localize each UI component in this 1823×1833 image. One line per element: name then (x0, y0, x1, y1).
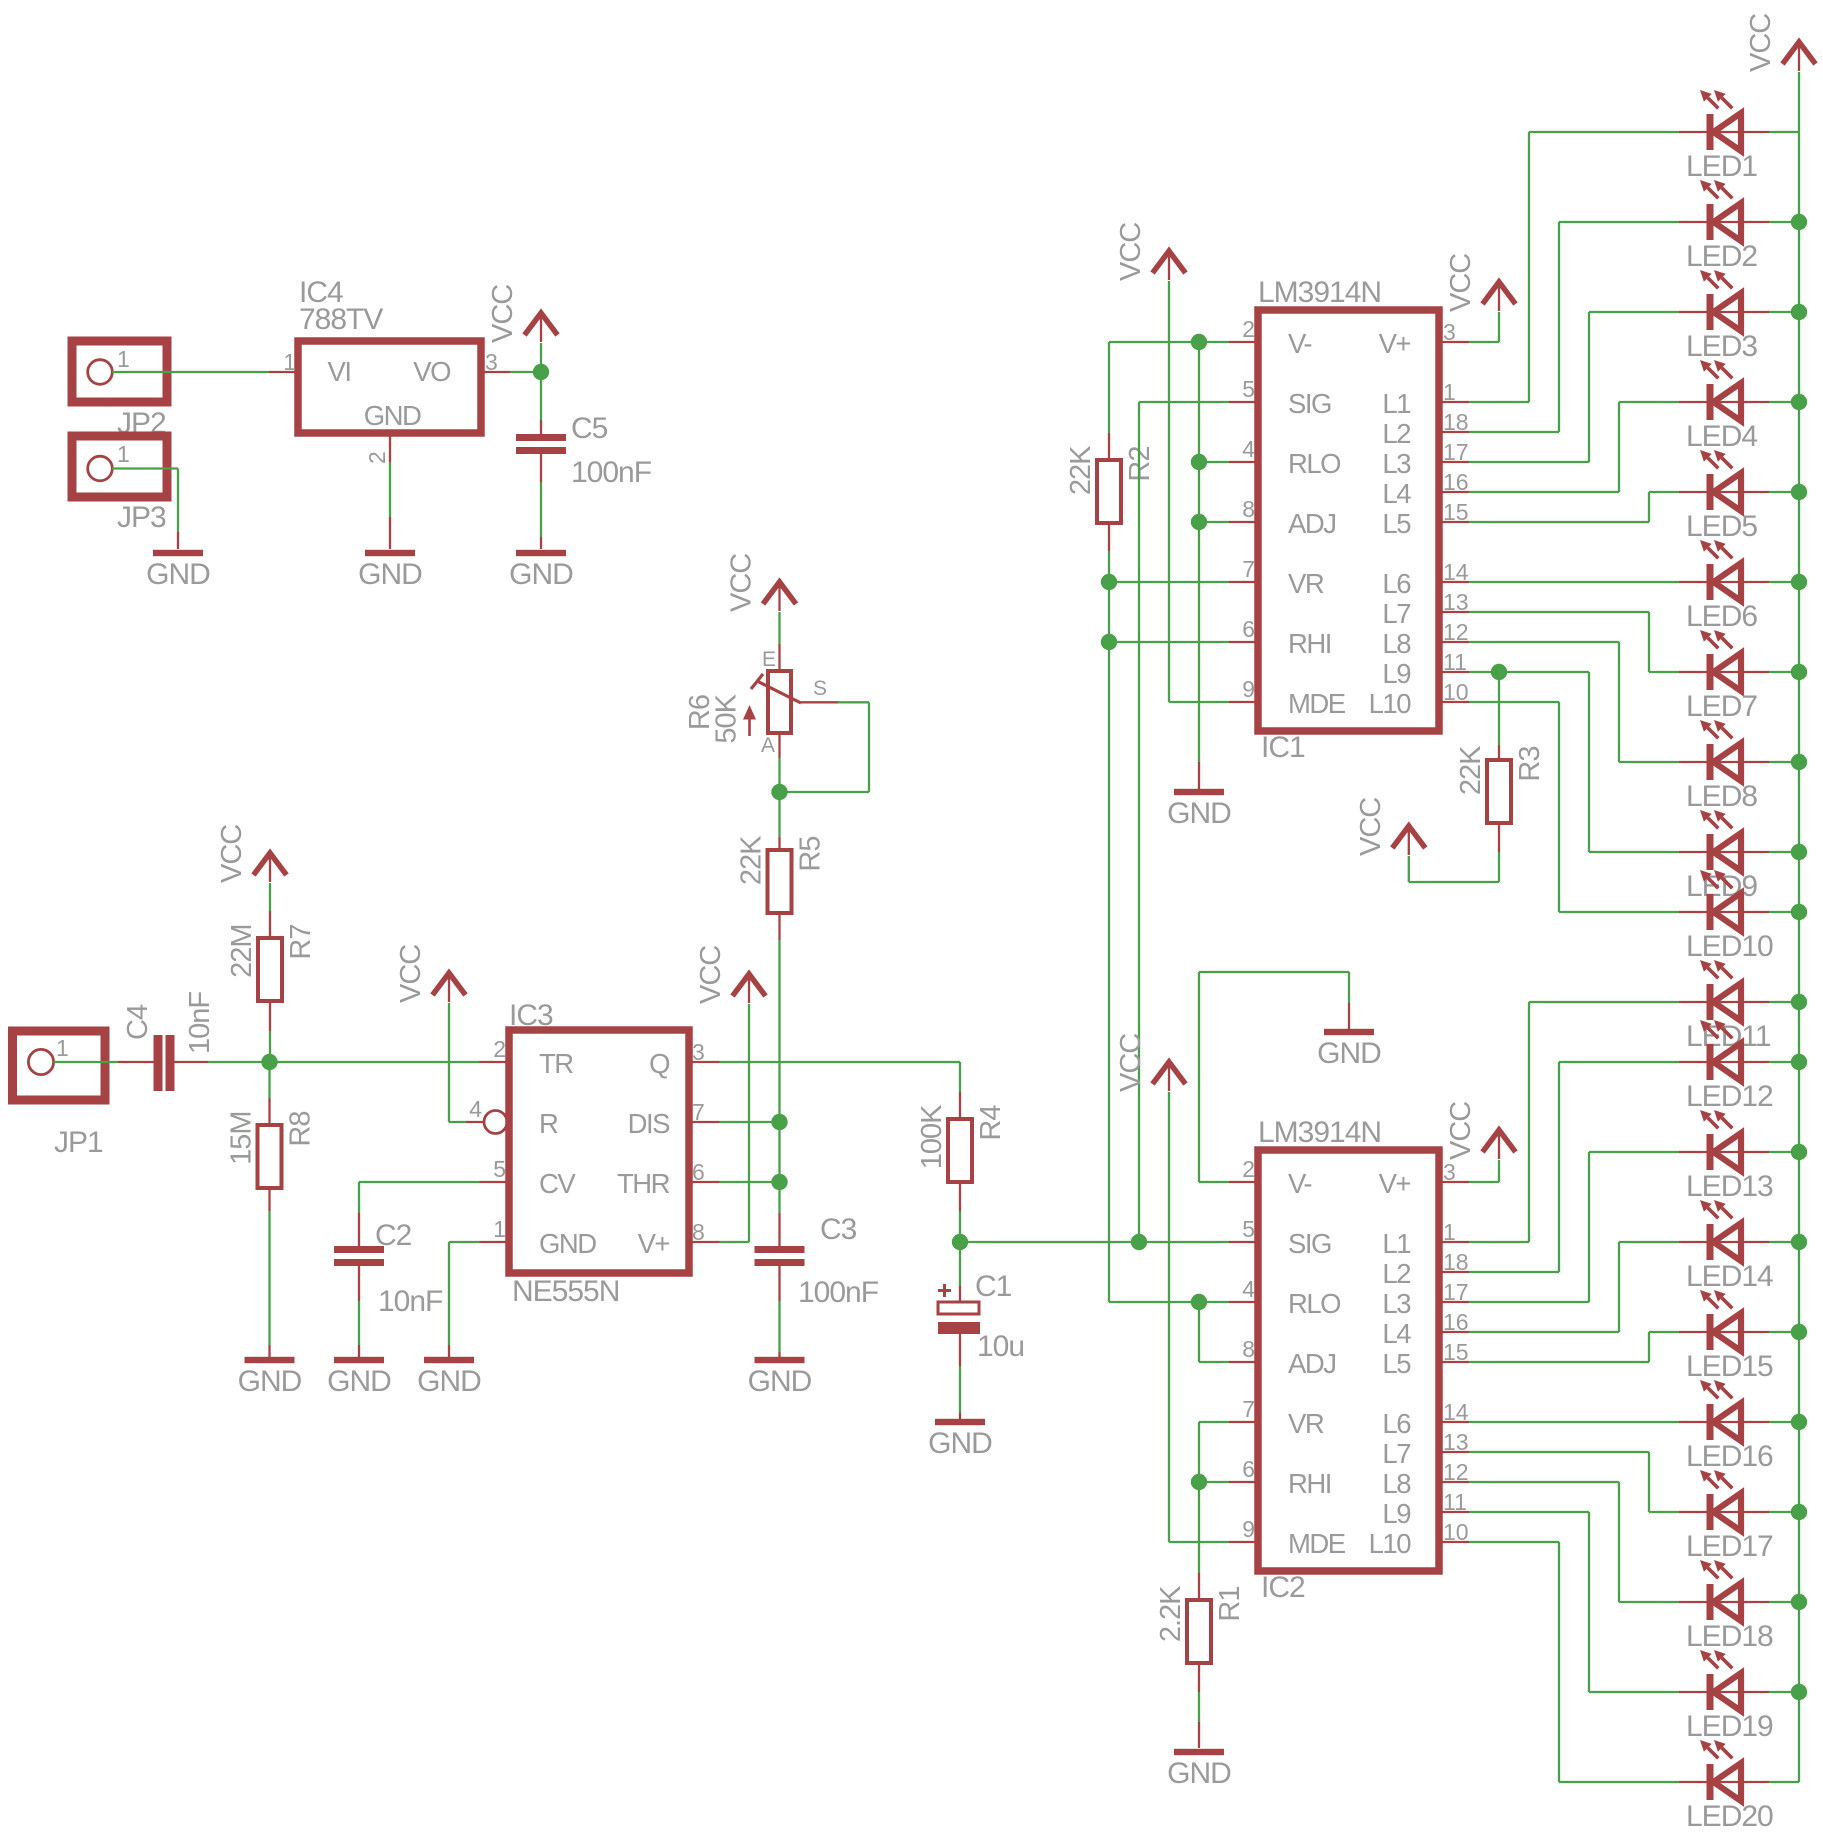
LED1 (1679, 131, 1769, 133)
ground below R8 (245, 1357, 295, 1363)
wire JP3 to ground (112, 467, 178, 469)
node DIS junction (771, 1114, 787, 1130)
svg-text:8: 8 (692, 1219, 705, 1245)
svg-text:L5: L5 (1382, 508, 1411, 539)
svg-text:5: 5 (1242, 376, 1255, 402)
svg-text:13: 13 (1443, 1429, 1469, 1455)
pin 4 RLO of IC1 (1229, 461, 1258, 463)
pin 5 SIG of IC2 (1229, 1241, 1258, 1243)
wire R8 to ground (268, 1188, 270, 1211)
pin 7 VR of IC2 (1229, 1421, 1258, 1423)
svg-text:IC3: IC3 (509, 999, 553, 1032)
wire IC2 ADJ row (1199, 1361, 1229, 1363)
svg-text:22K: 22K (736, 835, 768, 885)
wire V- row down to R2 (1108, 342, 1110, 433)
svg-text:VCC: VCC (1445, 1102, 1477, 1160)
ground below C2 (334, 1357, 384, 1363)
svg-text:R1: R1 (1214, 1587, 1246, 1622)
wire LED10 to bus (1769, 911, 1799, 913)
wire C2 to ground (358, 1266, 360, 1301)
R6 wiper slash (757, 681, 801, 703)
pin 3 VO of IC4 (481, 371, 510, 373)
wire VCC down to V+ row (748, 1004, 750, 1242)
pin 7 DIS of IC3 (689, 1121, 720, 1123)
svg-text:C3: C3 (820, 1213, 857, 1246)
wire IC2 MDE row (1169, 1541, 1229, 1543)
svg-text:100nF: 100nF (571, 456, 652, 489)
svg-text:R4: R4 (975, 1105, 1007, 1141)
svg-text:GND: GND (1317, 1037, 1381, 1070)
ground below IC3 (424, 1357, 474, 1363)
node bus junction LED4 (1791, 394, 1807, 410)
wire down to C2 (358, 1182, 360, 1213)
svg-text:8: 8 (1242, 1336, 1255, 1362)
wire LED supply bus (1798, 72, 1800, 1782)
svg-text:2: 2 (493, 1036, 506, 1062)
svg-text:L2: L2 (1382, 1258, 1410, 1289)
svg-text:17: 17 (1443, 439, 1469, 465)
pin 5 SIG of IC1 (1229, 401, 1258, 403)
pin 13 L7 of IC2 (1439, 1451, 1469, 1453)
wire R7 to node (269, 1001, 271, 1031)
node bus junction LED10 (1791, 904, 1807, 920)
wire DIS to column (720, 1121, 780, 1123)
LED5 (1679, 491, 1769, 493)
svg-text:L9: L9 (1382, 1498, 1410, 1529)
node IC1 VR junction (1101, 574, 1117, 590)
wire C4 to node TR (175, 1061, 209, 1063)
VCC above IC4 output (525, 313, 558, 335)
pin 15 L5 of IC1 (1439, 521, 1469, 523)
svg-text:NE555N: NE555N (512, 1275, 619, 1308)
svg-text:17: 17 (1443, 1279, 1469, 1305)
LED10 (1679, 911, 1769, 913)
pin 12 L8 of IC2 (1439, 1481, 1469, 1483)
svg-text:L2: L2 (1382, 418, 1410, 449)
wire node to R8 (268, 1062, 270, 1098)
resistor R5 22K body (768, 850, 792, 913)
wire IC1 RLO row (1199, 461, 1229, 463)
pin 16 L4 of IC2 (1439, 1331, 1469, 1333)
pin 2 TR of IC3 (480, 1061, 510, 1063)
wire node to C5 (540, 372, 542, 420)
node bus junction LED13 (1791, 1144, 1807, 1160)
wire IC2 L3 to LED13 (1469, 1301, 1589, 1303)
wire LED1 to bus (1769, 131, 1799, 133)
svg-text:15: 15 (1443, 1339, 1469, 1365)
svg-text:S: S (813, 677, 827, 700)
svg-text:LED6: LED6 (1686, 600, 1757, 633)
wire L4 to LED4 (1469, 491, 1619, 493)
svg-text:V-: V- (1288, 1168, 1311, 1199)
svg-text:ADJ: ADJ (1288, 508, 1335, 539)
svg-text:3: 3 (692, 1039, 705, 1065)
svg-text:2: 2 (1242, 316, 1255, 342)
VCC above IC2 MDE column (1153, 1062, 1186, 1084)
node IC1 ADJ junction (1191, 514, 1207, 530)
wire LED14 to bus (1769, 1241, 1799, 1243)
node IC1 RHI junction (1101, 634, 1117, 650)
svg-text:6: 6 (1242, 616, 1255, 642)
node IC2 RLO junction (1191, 1294, 1207, 1310)
svg-text:10: 10 (1443, 679, 1469, 705)
pin 3 V+ of IC1 (1439, 341, 1469, 343)
node bus junction LED15 (1791, 1324, 1807, 1340)
resistor R1 2.2K body (1187, 1600, 1211, 1663)
svg-text:L7: L7 (1382, 1438, 1410, 1469)
svg-text:GND: GND (1167, 1757, 1231, 1790)
wire IC2 V+ to VCC (1469, 1181, 1499, 1183)
node bus junction LED3 (1791, 304, 1807, 320)
svg-text:LED1: LED1 (1686, 150, 1757, 183)
svg-text:15: 15 (1443, 499, 1469, 525)
svg-text:1: 1 (117, 346, 130, 372)
svg-text:L4: L4 (1382, 478, 1411, 509)
svg-text:L10: L10 (1369, 688, 1412, 719)
ground below C1 (935, 1419, 985, 1425)
LED driver IC2 LM3914N (1258, 1150, 1439, 1571)
svg-text:8: 8 (1242, 496, 1255, 522)
svg-text:VCC: VCC (1745, 14, 1777, 72)
svg-text:L1: L1 (1382, 1228, 1410, 1259)
svg-text:4: 4 (1242, 1276, 1255, 1302)
pin 6 RHI of IC1 (1229, 641, 1258, 643)
ground below JP3 (153, 550, 203, 556)
pin 16 L4 of IC1 (1439, 491, 1469, 493)
pin 14 L6 of IC1 (1439, 581, 1469, 583)
pin 5 CV of IC3 (480, 1181, 510, 1183)
node bus junction LED19 (1791, 1684, 1807, 1700)
node bus junction LED12 (1791, 1054, 1807, 1070)
svg-text:L8: L8 (1382, 628, 1411, 659)
svg-text:1: 1 (283, 349, 296, 375)
svg-text:10nF: 10nF (378, 1285, 443, 1318)
svg-text:LED2: LED2 (1686, 240, 1757, 273)
wire IC1 GND column (1198, 342, 1200, 762)
pin 11 L9 of IC1 (1439, 671, 1469, 673)
svg-text:VO: VO (413, 356, 451, 387)
timer IC3 NE555N (509, 1030, 689, 1273)
pin 4 R of IC3 with inversion bubble (466, 1121, 484, 1123)
svg-text:SIG: SIG (1288, 388, 1331, 419)
svg-text:GND: GND (327, 1365, 391, 1398)
node VO/VCC/C5 junction (533, 364, 549, 380)
svg-text:LED20: LED20 (1686, 1800, 1773, 1833)
wire L6 to LED6 (1469, 581, 1679, 583)
svg-text:13: 13 (1443, 589, 1469, 615)
pin 18 L2 of IC2 (1439, 1271, 1469, 1273)
wire LED8 to bus (1769, 761, 1799, 763)
LED16 (1679, 1421, 1769, 1423)
svg-text:R8: R8 (285, 1112, 317, 1147)
pin 7 VR of IC1 (1229, 581, 1258, 583)
svg-text:VCC: VCC (487, 285, 519, 343)
wire VR/RHI column down to IC2 RLO (1108, 582, 1110, 1302)
wire LED17 to bus (1769, 1511, 1799, 1513)
pin 13 L7 of IC1 (1439, 611, 1469, 613)
svg-text:LED12: LED12 (1686, 1080, 1773, 1113)
LED3 (1679, 311, 1769, 313)
svg-text:4: 4 (1242, 436, 1255, 462)
node bus junction LED6 (1791, 574, 1807, 590)
svg-text:L6: L6 (1382, 1408, 1411, 1439)
svg-text:L10: L10 (1369, 1528, 1412, 1559)
svg-text:14: 14 (1443, 1399, 1469, 1425)
VCC top right (1783, 42, 1816, 64)
svg-text:10nF: 10nF (184, 992, 216, 1054)
pin 18 L2 of IC1 (1439, 431, 1469, 433)
svg-text:LED7: LED7 (1686, 690, 1757, 723)
svg-text:VCC: VCC (695, 946, 727, 1004)
svg-text:L8: L8 (1382, 1468, 1411, 1499)
svg-text:R7: R7 (285, 925, 317, 960)
svg-text:RLO: RLO (1288, 1288, 1341, 1319)
svg-text:9: 9 (1242, 676, 1255, 702)
svg-text:LED4: LED4 (1686, 420, 1757, 453)
wire node to VCC (540, 343, 542, 372)
svg-text:THR: THR (617, 1168, 670, 1199)
wire LED4 to bus (1769, 401, 1799, 403)
svg-text:MDE: MDE (1288, 1528, 1346, 1559)
wire LED2 to bus (1769, 221, 1799, 223)
wire VCC down to R pin (448, 1003, 450, 1122)
pin 3 Q of IC3 (689, 1061, 720, 1063)
svg-text:V+: V+ (1379, 1168, 1411, 1199)
resistor R2 22K body (1097, 460, 1121, 523)
svg-text:V+: V+ (638, 1228, 670, 1259)
wire to R bubble (449, 1121, 466, 1123)
svg-text:L3: L3 (1382, 448, 1411, 479)
wire LED19 to bus (1769, 1691, 1799, 1693)
pin 11 L9 of IC2 (1439, 1511, 1469, 1513)
pin 6 THR of IC3 (689, 1181, 720, 1183)
node R6/R5 junction (771, 784, 787, 800)
pin 2 V- of IC2 (1229, 1181, 1258, 1183)
svg-text:12: 12 (1443, 1459, 1469, 1485)
wire R2 to VR junction (1108, 523, 1110, 551)
wire IC2 VR to RHI link (1198, 1422, 1200, 1482)
svg-text:4: 4 (469, 1096, 482, 1122)
svg-text:VCC: VCC (216, 825, 248, 883)
svg-text:LED16: LED16 (1686, 1440, 1773, 1473)
wire JP1 to C4 (54, 1061, 118, 1063)
node SIG column junction (1131, 1234, 1147, 1250)
svg-text:Q: Q (649, 1048, 670, 1079)
wire R5 down to DIS/THR column (778, 913, 780, 940)
svg-text:L6: L6 (1382, 568, 1411, 599)
wire IC2 L10 to LED20 (1469, 1541, 1559, 1543)
wire IC2 V- row to ground loop (1199, 1181, 1229, 1183)
svg-text:L5: L5 (1382, 1348, 1411, 1379)
svg-text:LED15: LED15 (1686, 1350, 1773, 1383)
svg-text:LED3: LED3 (1686, 330, 1757, 363)
svg-text:DIS: DIS (628, 1108, 671, 1139)
node bus junction LED17 (1791, 1504, 1807, 1520)
VCC at IC2 V+ (1483, 1130, 1516, 1152)
wire LED5 to bus (1769, 491, 1799, 493)
ground below IC4 (365, 550, 415, 556)
wire L10 to LED10 (1469, 701, 1559, 703)
LED7 (1679, 671, 1769, 673)
svg-text:VCC: VCC (1115, 223, 1147, 281)
resistor R7 22M body (258, 938, 282, 1001)
wire LED16 to bus (1769, 1421, 1799, 1423)
pin 9 MDE of IC2 (1229, 1541, 1258, 1543)
svg-text:JP1: JP1 (54, 1126, 103, 1159)
wire R3 to VCC (1498, 823, 1500, 852)
wire R6 A to node (778, 733, 780, 758)
wire LED18 to bus (1769, 1601, 1799, 1603)
svg-text:LED13: LED13 (1686, 1170, 1773, 1203)
svg-text:7: 7 (692, 1099, 705, 1125)
svg-text:SIG: SIG (1288, 1228, 1331, 1259)
svg-text:VCC: VCC (1355, 798, 1387, 856)
LED8 (1679, 761, 1769, 763)
VCC above R7 (254, 853, 287, 875)
wire L8 to LED8 (1469, 641, 1619, 643)
svg-text:12: 12 (1443, 619, 1469, 645)
svg-text:ADJ: ADJ (1288, 1348, 1335, 1379)
wire R1 to ground (1198, 1663, 1200, 1692)
wire IC2 L8 to LED18 (1469, 1481, 1619, 1483)
capacitor C4 10nF (154, 1035, 163, 1091)
pin 2 GND of IC4 (389, 433, 391, 462)
pin 14 L6 of IC2 (1439, 1421, 1469, 1423)
VCC above IC3 R pin (433, 973, 466, 995)
svg-text:GND: GND (748, 1365, 812, 1398)
svg-text:7: 7 (1242, 1396, 1255, 1422)
node bus junction LED16 (1791, 1414, 1807, 1430)
pin 1 L1 of IC2 (1439, 1241, 1469, 1243)
wire L9 to LED9 (1469, 671, 1589, 673)
LED14 (1679, 1241, 1769, 1243)
svg-text:VCC: VCC (1445, 254, 1477, 312)
wire L7 to LED7 (1469, 611, 1649, 613)
svg-text:VCC: VCC (395, 945, 427, 1003)
wire R6 wiper S loop (801, 701, 838, 703)
node bus junction LED11 (1791, 994, 1807, 1010)
wire Q output to R4 (720, 1061, 961, 1063)
svg-text:L3: L3 (1382, 1288, 1411, 1319)
svg-text:R5: R5 (795, 837, 827, 872)
svg-text:V+: V+ (1379, 328, 1411, 359)
svg-text:3: 3 (1443, 1159, 1456, 1185)
wire LED12 to bus (1769, 1061, 1799, 1063)
wire L9 node down to R3 (1498, 672, 1500, 745)
wire IC2 L9 to LED19 (1469, 1511, 1589, 1513)
LED11 (1679, 1001, 1769, 1003)
svg-text:14: 14 (1443, 559, 1469, 585)
svg-text:GND: GND (417, 1365, 481, 1398)
capacitor C3 100nF (778, 1213, 780, 1246)
node IC1 V- junction (1191, 334, 1207, 350)
LED12 (1679, 1061, 1769, 1063)
svg-text:R: R (539, 1108, 558, 1139)
wire IC1 VR row (1109, 581, 1229, 583)
svg-text:C1: C1 (975, 1270, 1012, 1303)
wire LED11 to bus (1769, 1001, 1799, 1003)
wire IC1 ADJ row (1199, 521, 1229, 523)
wire C1 to ground (959, 1334, 961, 1366)
svg-text:RHI: RHI (1288, 628, 1331, 659)
connector JP3 (72, 436, 167, 497)
wire IC2 RLO to ADJ link (1198, 1302, 1200, 1362)
svg-text:5: 5 (493, 1156, 506, 1182)
svg-text:22K: 22K (1065, 445, 1097, 495)
voltage regulator IC4 788TV (298, 341, 481, 433)
LED4 (1679, 401, 1769, 403)
LED17 (1679, 1511, 1769, 1513)
wire IC1 MDE row (1169, 701, 1229, 703)
svg-text:L7: L7 (1382, 598, 1410, 629)
svg-text:50K: 50K (711, 693, 743, 743)
svg-text:GND: GND (1167, 797, 1231, 830)
pin 1 GND of IC3 (480, 1241, 510, 1243)
VCC above IC1 MDE column (1153, 251, 1186, 273)
pin 12 L8 of IC1 (1439, 641, 1469, 643)
svg-text:V-: V- (1288, 328, 1311, 359)
svg-text:22M: 22M (226, 925, 258, 978)
svg-text:C2: C2 (375, 1219, 412, 1252)
svg-text:9: 9 (1242, 1516, 1255, 1542)
LED2 (1679, 221, 1769, 223)
svg-text:7: 7 (1242, 556, 1255, 582)
wire L1 to LED1 (1469, 401, 1529, 403)
svg-text:MDE: MDE (1288, 688, 1346, 719)
wire IC2 L2 to LED12 (1469, 1271, 1559, 1273)
resistor R3 22K body (1487, 760, 1511, 823)
pin 2 V- of IC1 (1229, 341, 1258, 343)
svg-text:LED18: LED18 (1686, 1620, 1773, 1653)
svg-text:6: 6 (692, 1159, 705, 1185)
svg-text:11: 11 (1443, 1489, 1467, 1515)
wire LED20 to bus (1769, 1781, 1799, 1783)
ground below R1 (1174, 1749, 1224, 1755)
pin 1 VI of IC4 (269, 371, 298, 373)
node R4/C1/SIG junction (952, 1234, 968, 1250)
svg-text:R3: R3 (1514, 747, 1546, 782)
node bus junction LED5 (1791, 484, 1807, 500)
svg-text:GND: GND (364, 400, 421, 431)
capacitor C3 (755, 1246, 805, 1253)
VCC above IC3 V+ (733, 974, 766, 996)
pin 8 ADJ of IC1 (1229, 521, 1258, 523)
wire SIG column down to IC2 SIG (1138, 402, 1140, 1242)
svg-text:CV: CV (539, 1168, 576, 1199)
wire IC1 RHI row (1109, 641, 1229, 643)
svg-text:LM3914N: LM3914N (1258, 1116, 1381, 1149)
svg-text:VI: VI (328, 356, 351, 387)
wire LED3 to bus (1769, 311, 1799, 313)
wire node to R5 (778, 792, 780, 837)
svg-text:RLO: RLO (1288, 448, 1341, 479)
svg-text:GND: GND (238, 1365, 302, 1398)
wire CV to C2 column (359, 1181, 480, 1183)
svg-text:100K: 100K (916, 1104, 948, 1169)
svg-text:16: 16 (1443, 469, 1469, 495)
wire L3 to LED3 (1469, 461, 1589, 463)
svg-text:1: 1 (1443, 1219, 1456, 1245)
svg-text:22K: 22K (1455, 745, 1487, 795)
svg-text:LED10: LED10 (1686, 930, 1773, 963)
VCC above R6 (763, 582, 796, 604)
svg-text:18: 18 (1443, 409, 1469, 435)
R6 adjust arrow (748, 714, 751, 736)
pin 4 RLO of IC2 (1229, 1301, 1258, 1303)
svg-text:RHI: RHI (1288, 1468, 1331, 1499)
node bus junction LED8 (1791, 754, 1807, 770)
svg-text:A: A (761, 734, 775, 757)
